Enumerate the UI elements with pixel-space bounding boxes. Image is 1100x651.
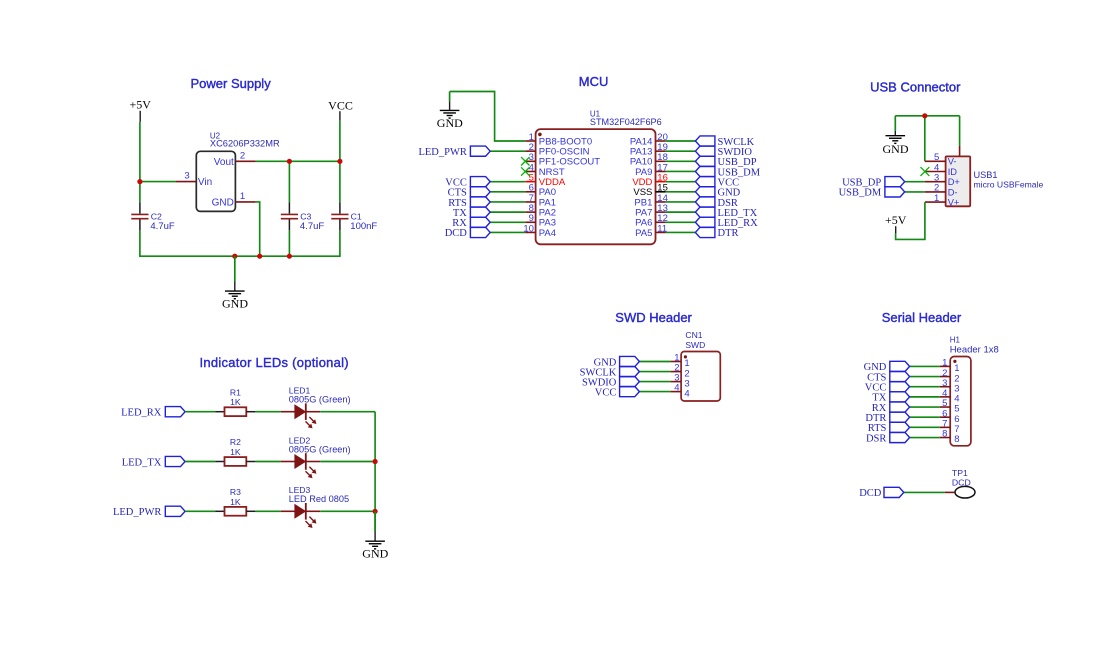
svg-text:D-: D-	[948, 187, 958, 197]
svg-text:R3: R3	[230, 487, 241, 497]
svg-text:GND: GND	[362, 547, 388, 561]
svg-text:100nF: 100nF	[350, 221, 377, 232]
svg-text:1K: 1K	[230, 497, 241, 507]
svg-text:DCD: DCD	[445, 228, 468, 239]
svg-text:PA4: PA4	[539, 228, 556, 239]
svg-text:LED_PWR: LED_PWR	[113, 507, 161, 518]
svg-text:LED Red 0805: LED Red 0805	[289, 494, 349, 504]
svg-text:DTR: DTR	[718, 228, 739, 239]
svg-text:2: 2	[240, 150, 245, 161]
svg-text:DSR: DSR	[866, 433, 886, 444]
svg-text:1K: 1K	[230, 397, 241, 407]
svg-text:4.7uF: 4.7uF	[150, 221, 174, 232]
svg-text:1K: 1K	[230, 447, 241, 457]
svg-text:0805G (Green): 0805G (Green)	[289, 444, 351, 454]
svg-text:R1: R1	[230, 387, 241, 397]
svg-text:4: 4	[684, 388, 689, 399]
svg-text:GND: GND	[212, 197, 234, 208]
svg-text:1: 1	[240, 191, 245, 202]
svg-text:3: 3	[184, 171, 189, 182]
svg-text:V-: V-	[948, 157, 957, 167]
svg-text:SWD: SWD	[685, 340, 705, 350]
svg-text:Indicator LEDs (optional): Indicator LEDs (optional)	[200, 355, 349, 370]
svg-text:micro USBFemale: micro USBFemale	[974, 180, 1044, 190]
svg-text:GND: GND	[437, 116, 463, 130]
svg-text:Serial Header: Serial Header	[882, 310, 962, 325]
svg-text:SWD Header: SWD Header	[615, 310, 692, 325]
svg-text:GND: GND	[883, 142, 909, 156]
svg-text:MCU: MCU	[579, 74, 609, 89]
svg-text:+5V: +5V	[129, 98, 151, 112]
svg-text:GND: GND	[222, 296, 248, 310]
svg-text:4: 4	[674, 383, 679, 394]
svg-text:DCD: DCD	[859, 488, 882, 499]
svg-text:Power Supply: Power Supply	[190, 76, 271, 91]
svg-text:CN1: CN1	[685, 330, 702, 340]
svg-text:VCC: VCC	[328, 98, 353, 112]
svg-text:0805G (Green): 0805G (Green)	[289, 395, 351, 405]
svg-text:Vin: Vin	[198, 177, 212, 188]
svg-text:LED_TX: LED_TX	[122, 457, 162, 468]
svg-text:STM32F042F6P6: STM32F042F6P6	[590, 117, 662, 127]
svg-text:D+: D+	[948, 177, 960, 187]
svg-text:LED_PWR: LED_PWR	[418, 147, 466, 158]
svg-text:LED_RX: LED_RX	[121, 408, 162, 419]
svg-text:ID: ID	[948, 167, 958, 177]
svg-text:8: 8	[954, 434, 959, 445]
svg-text:R2: R2	[230, 437, 241, 447]
svg-text:DCD: DCD	[952, 477, 971, 487]
svg-text:USB Connector: USB Connector	[870, 79, 961, 94]
svg-text:4.7uF: 4.7uF	[300, 221, 324, 232]
svg-text:VCC: VCC	[595, 387, 617, 398]
svg-text:XC6206P332MR: XC6206P332MR	[210, 139, 280, 149]
svg-text:USB_DM: USB_DM	[839, 188, 882, 199]
svg-text:PA5: PA5	[635, 228, 652, 239]
svg-text:11: 11	[657, 223, 667, 234]
svg-text:Vout: Vout	[214, 157, 234, 168]
svg-text:8: 8	[942, 429, 947, 440]
svg-text:+5V: +5V	[885, 213, 907, 227]
svg-text:V+: V+	[948, 198, 960, 208]
svg-text:1: 1	[934, 193, 939, 204]
svg-text:H1: H1	[950, 335, 961, 344]
svg-text:Header 1x8: Header 1x8	[950, 344, 999, 355]
